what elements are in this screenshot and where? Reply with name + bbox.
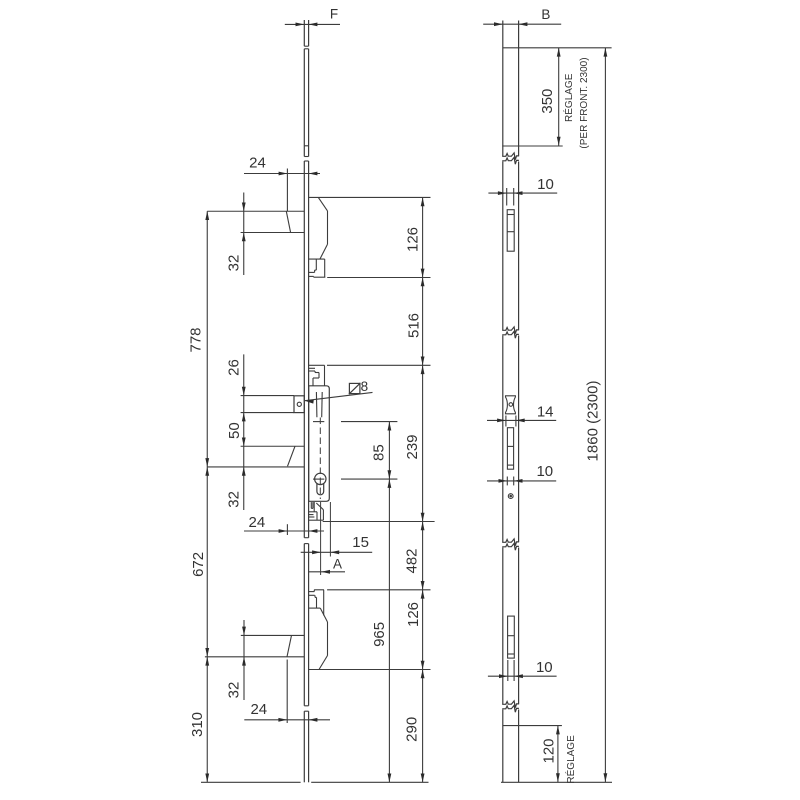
- svg-text:482: 482: [404, 548, 421, 573]
- svg-text:778: 778: [188, 327, 205, 352]
- svg-text:239: 239: [404, 434, 421, 459]
- svg-text:24: 24: [250, 701, 267, 718]
- svg-text:A: A: [333, 556, 342, 571]
- svg-text:126: 126: [405, 227, 422, 252]
- svg-text:85: 85: [370, 444, 387, 461]
- svg-text:290: 290: [404, 717, 421, 742]
- svg-text:32: 32: [226, 255, 243, 272]
- svg-text:120: 120: [540, 738, 557, 763]
- svg-text:1860 (2300): 1860 (2300): [585, 381, 602, 462]
- svg-text:26: 26: [225, 359, 242, 376]
- svg-text:516: 516: [406, 313, 423, 338]
- svg-text:F: F: [330, 7, 338, 22]
- svg-text:24: 24: [249, 514, 266, 531]
- svg-text:B: B: [541, 7, 550, 22]
- svg-text:8: 8: [361, 379, 369, 394]
- svg-text:126: 126: [405, 602, 422, 627]
- svg-text:10: 10: [536, 463, 553, 480]
- svg-text:965: 965: [371, 622, 388, 647]
- svg-text:350: 350: [539, 89, 556, 114]
- svg-text:10: 10: [536, 659, 553, 676]
- svg-text:RÉGLAGE: RÉGLAGE: [562, 73, 575, 122]
- svg-text:32: 32: [225, 682, 242, 699]
- svg-text:50: 50: [226, 422, 243, 439]
- svg-text:24: 24: [249, 155, 266, 172]
- svg-text:310: 310: [189, 712, 206, 737]
- svg-text:672: 672: [190, 552, 207, 577]
- svg-text:10: 10: [537, 176, 554, 193]
- svg-text:(PER FRONT. 2300): (PER FRONT. 2300): [579, 57, 590, 148]
- svg-text:14: 14: [537, 403, 554, 420]
- svg-text:32: 32: [225, 491, 242, 508]
- svg-text:15: 15: [352, 534, 369, 551]
- svg-text:RÉGLAGE: RÉGLAGE: [564, 735, 577, 784]
